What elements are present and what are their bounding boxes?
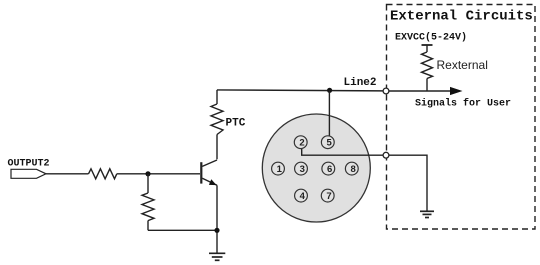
svg-text:EXVCC(5-24V): EXVCC(5-24V) xyxy=(395,32,467,44)
svg-text:PTC: PTC xyxy=(226,118,246,130)
svg-text:OUTPUT2: OUTPUT2 xyxy=(8,159,50,170)
svg-text:External Circuits: External Circuits xyxy=(390,9,533,25)
svg-text:Signals for User: Signals for User xyxy=(415,98,511,110)
svg-text:2: 2 xyxy=(299,138,304,149)
svg-text:5: 5 xyxy=(326,138,332,149)
svg-text:8: 8 xyxy=(350,164,355,175)
svg-text:3: 3 xyxy=(300,164,305,175)
svg-text:6: 6 xyxy=(327,164,332,175)
svg-text:Rexternal: Rexternal xyxy=(437,58,488,72)
svg-text:7: 7 xyxy=(326,191,331,202)
svg-text:4: 4 xyxy=(300,191,306,202)
svg-text:Line2: Line2 xyxy=(344,77,377,89)
svg-text:1: 1 xyxy=(277,164,283,175)
